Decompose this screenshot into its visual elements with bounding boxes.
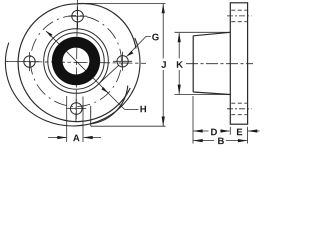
back rim bottom arc: [91, 86, 128, 124]
J arrowhead bottom: [162, 117, 165, 127]
K arrowhead bottom: [178, 85, 181, 95]
bolt hole right: [113, 52, 132, 71]
outer silhouette: rim arc (right) + front circle (left/bottom): [18, 3, 136, 121]
right view: hub taper bottom: [193, 92, 230, 95]
bolt-circle diameter arrowhead lower-right: [101, 87, 108, 93]
G leader continuation through bolt hole to hub circle: [99, 65, 119, 84]
hub circle inner: [48, 33, 104, 89]
arrowheads: [46, 4, 257, 143]
bore black ring: [52, 37, 100, 85]
bolt hole left: [20, 52, 39, 71]
label K: [177, 61, 183, 68]
right view: top hole centerline: [227, 15, 252, 17]
label B: [218, 138, 224, 145]
labels: [73, 34, 242, 144]
E outside arrow shaft: [248, 130, 259, 132]
right view: flange plate: [230, 3, 247, 124]
bolt-circle diameter line (45 deg): [46, 31, 108, 93]
label J: [161, 61, 165, 68]
bolt circle (dash-dot): [31, 16, 122, 107]
D arrowhead left: [193, 129, 203, 132]
right view: hub taper top: [193, 32, 230, 36]
K dimension line: [178, 33, 180, 94]
B arrowhead right: [238, 139, 248, 142]
B dimension line: [193, 140, 247, 142]
J arrowhead top: [162, 4, 165, 14]
D dimension line: [193, 130, 230, 132]
label A: [73, 135, 79, 142]
K arrowhead top: [178, 33, 181, 43]
E outside arrowhead: [248, 129, 257, 132]
right view: bolt hole hidden lines top: [231, 10, 247, 22]
J top extension line: [79, 2, 166, 4]
right view: bolt hole hidden lines bottom: [231, 103, 247, 115]
B arrowhead left: [193, 139, 203, 142]
J bottom extension line: [91, 125, 166, 127]
bolt-circle diameter arrowhead upper-left: [46, 31, 53, 37]
right view horizontal centerline: [186, 63, 253, 65]
label G: [152, 34, 158, 41]
hub circle outer: [44, 29, 109, 94]
J dimension line: [162, 4, 164, 126]
K extension lines: [175, 32, 231, 94]
H leader: [107, 92, 138, 109]
label E: [237, 129, 242, 136]
bolt hole top: [68, 7, 87, 30]
bolt hole bottom: [66, 99, 86, 119]
A arrow shafts: [48, 137, 101, 139]
D/E/B extension lines: [193, 96, 248, 144]
A arrowhead right: [83, 136, 93, 139]
D arrowhead right: [221, 129, 231, 132]
label D: [211, 129, 217, 136]
G leader arrowhead: [127, 51, 134, 57]
label H: [140, 106, 146, 113]
G leader: [127, 37, 151, 57]
rim jog line: [90, 106, 92, 126]
left view vertical centerline: [76, 0, 78, 122]
right view: hub face: [192, 36, 194, 92]
left view horizontal centerline: [6, 61, 146, 63]
A extension lines: [67, 96, 83, 142]
right view: bottom hole centerline: [227, 108, 252, 110]
A arrowhead left: [57, 136, 67, 139]
outer rim silhouette arc (quasi-3D): [5, 38, 140, 126]
